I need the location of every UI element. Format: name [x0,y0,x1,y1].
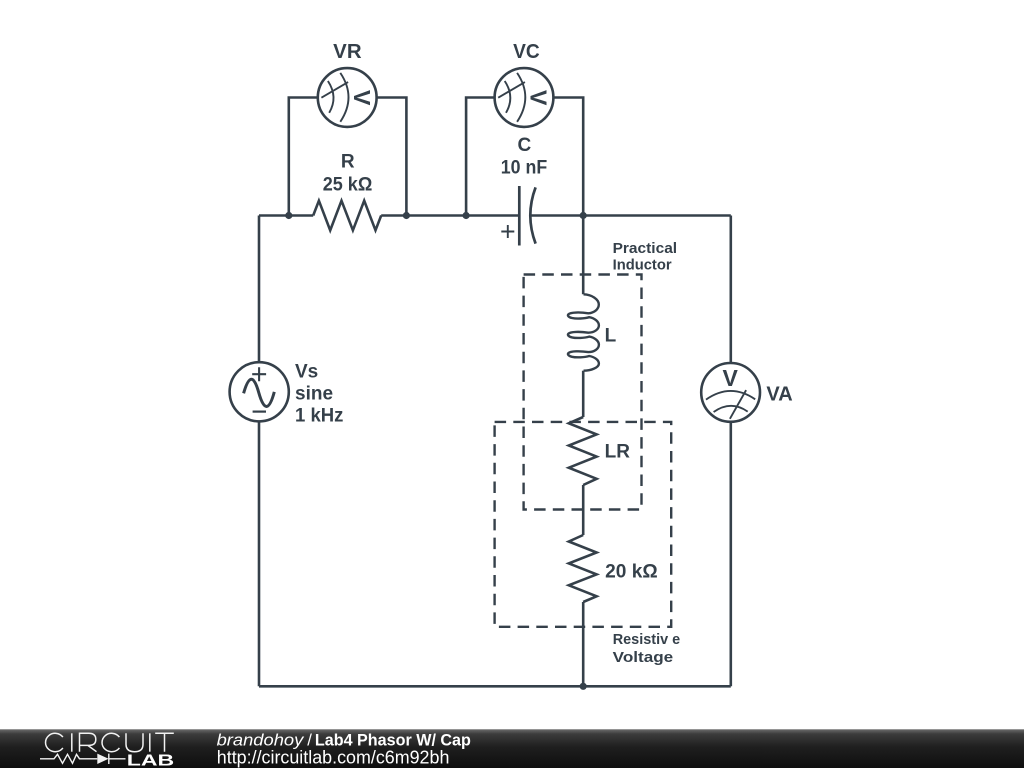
svg-text:10 nF: 10 nF [501,158,547,179]
svg-text:LAB: LAB [127,753,174,768]
voltmeter VR [318,68,377,127]
wire VC loop right [553,98,583,216]
logo resistor-diode glyph [40,754,126,764]
svg-text:Voltage: Voltage [613,649,674,666]
resistor R1 zigzag [313,201,381,231]
svg-text:LR: LR [605,442,631,463]
wire left rail upper [258,216,261,363]
wire left rail lower [258,421,261,686]
dashed box Practical Inductor [524,275,642,510]
inductor L coil [568,294,599,370]
resistor 20k zigzag [569,535,597,602]
svg-text:/: / [307,730,312,749]
svg-text:Lab4 Phasor W/ Cap: Lab4 Phasor W/ Cap [315,730,471,749]
wire 20k to bottom rail [582,602,585,686]
wire VR loop left [289,98,318,216]
wire LR to 20k [582,485,585,535]
wire between R and C [381,214,518,217]
svg-text:V: V [349,90,375,106]
wire right of C to top-right corner [532,214,731,217]
capacitor C plates [501,186,535,246]
resistor LR zigzag [569,417,597,485]
svg-text:Resistiv e: Resistiv e [613,631,681,648]
wire middle branch to inductor [582,216,585,295]
wire VR loop right [377,98,407,216]
wire inductor to LR [582,371,585,417]
wire bottom rail [259,685,731,688]
wire VC loop left [466,98,495,216]
logo CIRCUIT letters [46,733,174,751]
svg-text:Practical: Practical [613,240,678,257]
wire top-left segment [259,214,313,217]
voltmeter VA [701,363,760,422]
svg-text:C: C [518,135,532,156]
svg-text:http://circuitlab.com/c6m92bh: http://circuitlab.com/c6m92bh [217,748,450,768]
svg-text:25 kΩ: 25 kΩ [323,175,373,196]
svg-text:Inductor: Inductor [613,257,672,274]
footer bar [0,729,1024,768]
voltage source Vs [230,362,289,421]
svg-text:sine: sine [295,383,333,404]
svg-text:R: R [341,152,355,173]
svg-text:VC: VC [513,41,540,63]
wire right rail lower [729,422,732,687]
svg-text:brandohoy: brandohoy [217,730,306,749]
wire right rail upper [729,216,732,364]
svg-text:20 kΩ: 20 kΩ [605,561,658,582]
node junction dots [285,212,587,690]
svg-text:Vs: Vs [295,361,318,382]
svg-text:VA: VA [766,383,792,405]
svg-text:V: V [526,90,552,106]
svg-text:1 kHz: 1 kHz [295,406,343,427]
svg-text:V: V [722,365,738,391]
svg-text:L: L [605,325,617,346]
voltmeter VC [495,68,554,127]
svg-text:VR: VR [333,41,362,63]
dashed box Resistive Voltage [495,422,672,627]
